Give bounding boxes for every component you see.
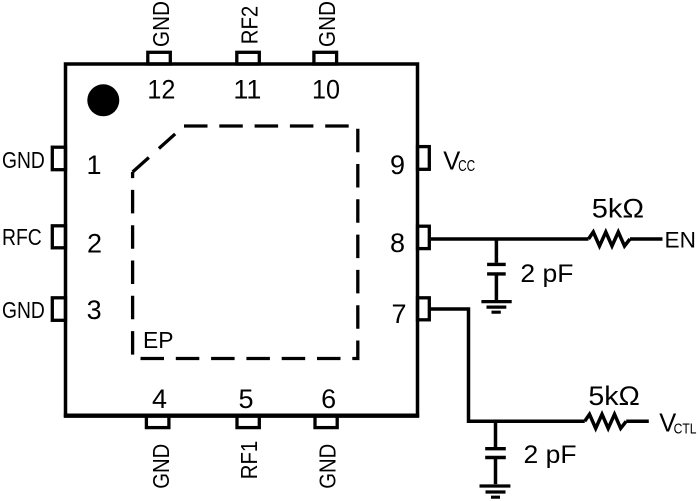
IC package U1 body bbox=[66, 64, 418, 416]
svg-text:10: 10 bbox=[312, 75, 340, 105]
pin 2 pad bbox=[52, 226, 65, 248]
svg-text:12: 12 bbox=[147, 75, 175, 105]
resistor R1 zigzag bbox=[589, 232, 631, 246]
pin 1 indicator dot bbox=[87, 84, 119, 116]
ground GND1 symbol bbox=[481, 302, 511, 313]
wire R2 to VCTL bbox=[626, 420, 649, 424]
svg-text:9: 9 bbox=[390, 150, 405, 180]
resistor R2 zigzag bbox=[585, 414, 627, 428]
capacitor C1 bottom lead bbox=[495, 276, 499, 301]
pin 1 pad bbox=[52, 147, 65, 170]
svg-text:1: 1 bbox=[86, 150, 101, 180]
pin 8 pad bbox=[418, 226, 430, 248]
pin 10 pad bbox=[314, 52, 337, 64]
svg-text:4: 4 bbox=[152, 384, 167, 414]
svg-text:GND: GND bbox=[148, 1, 174, 47]
pin 12 pad bbox=[148, 52, 171, 64]
svg-text:RFC: RFC bbox=[2, 224, 42, 250]
svg-text:RF1: RF1 bbox=[236, 441, 262, 480]
svg-text:7: 7 bbox=[391, 299, 406, 329]
svg-text:CC: CC bbox=[458, 158, 475, 175]
wire R1 to EN bbox=[630, 237, 663, 241]
svg-text:5: 5 bbox=[238, 384, 253, 414]
svg-text:RF2: RF2 bbox=[236, 6, 262, 45]
pin 4 pad bbox=[146, 416, 169, 428]
svg-text:GND: GND bbox=[314, 1, 340, 47]
pin 7 pad bbox=[418, 298, 430, 320]
svg-text:11: 11 bbox=[233, 75, 261, 105]
pin 3 pad bbox=[52, 298, 65, 321]
svg-text:EN: EN bbox=[665, 228, 696, 253]
capacitor C2 bottom lead bbox=[494, 459, 498, 484]
svg-text:GND: GND bbox=[2, 297, 45, 323]
svg-text:2 pF: 2 pF bbox=[520, 260, 573, 288]
capacitor C1 plates bbox=[487, 264, 506, 274]
exposed pad chamfer dashed bbox=[133, 126, 184, 172]
exposed pad EP dashed outline bbox=[133, 126, 358, 359]
pin 5 pad bbox=[237, 416, 259, 428]
wire pin8 to resistor R1 bbox=[431, 237, 589, 241]
ground GND2 symbol bbox=[480, 486, 511, 497]
pin 11 pad bbox=[237, 52, 259, 64]
svg-text:6: 6 bbox=[321, 384, 336, 414]
svg-text:2: 2 bbox=[87, 229, 102, 259]
svg-text:GND: GND bbox=[314, 444, 340, 489]
capacitor C2 plates bbox=[485, 449, 506, 458]
package bottom edge (thicker) bbox=[64, 414, 419, 418]
capacitor C1 top lead bbox=[495, 239, 499, 263]
svg-text:CTL: CTL bbox=[674, 420, 697, 437]
svg-text:2 pF: 2 pF bbox=[524, 441, 577, 469]
svg-text:EP: EP bbox=[143, 327, 174, 353]
svg-text:GND: GND bbox=[148, 444, 174, 489]
wire pin7 to node bbox=[429, 309, 584, 421]
pin 6 pad bbox=[315, 416, 337, 428]
svg-text:8: 8 bbox=[390, 228, 405, 258]
svg-text:5kΩ: 5kΩ bbox=[592, 194, 644, 224]
svg-text:3: 3 bbox=[87, 295, 102, 325]
svg-text:GND: GND bbox=[2, 147, 45, 173]
capacitor C2 top lead bbox=[494, 421, 498, 447]
pin 9 pad bbox=[418, 147, 430, 170]
svg-text:5kΩ: 5kΩ bbox=[588, 381, 640, 411]
